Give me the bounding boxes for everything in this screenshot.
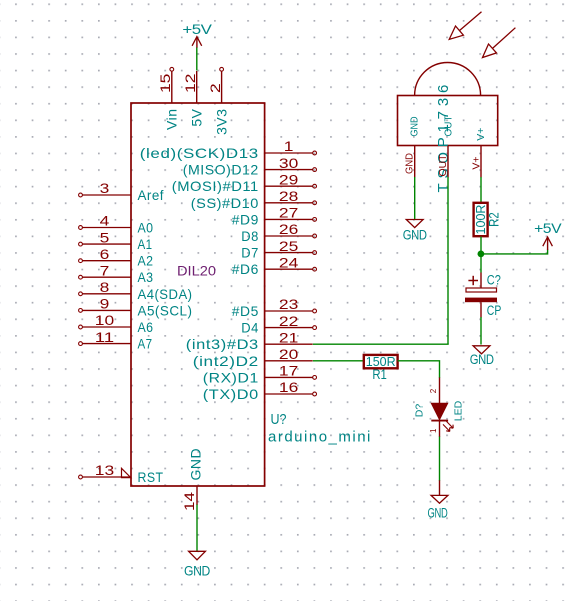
svg-text:A3: A3 — [138, 269, 154, 285]
IC pin 2 (3V3) top — [207, 67, 230, 135]
IC pin 17 ((RX)D1) right — [203, 363, 317, 386]
svg-text:OUT: OUT — [442, 115, 454, 137]
incoming light arrow 1 — [449, 12, 481, 40]
svg-text:11: 11 — [95, 329, 115, 345]
svg-text:A4(SDA): A4(SDA) — [138, 286, 193, 302]
resistor R1 150R — [364, 355, 398, 382]
svg-text:2: 2 — [207, 83, 223, 93]
svg-text:3: 3 — [100, 180, 110, 196]
svg-text:GND: GND — [403, 153, 415, 174]
IR receiver dome — [415, 63, 481, 96]
wire sensor V+ to R2 — [480, 177, 482, 203]
svg-text:LED: LED — [453, 400, 465, 421]
ground symbol under LED — [428, 495, 448, 520]
IR sensor value TSOP1736 (vertical) — [435, 80, 452, 193]
svg-text:(SS)#D10: (SS)#D10 — [191, 195, 259, 211]
IC pin 7 (A3) left — [79, 262, 154, 285]
svg-text:#D6: #D6 — [232, 261, 259, 277]
power symbol +5V (top, to pin 12) — [182, 22, 211, 48]
IC pin 16 ((TX)D0) right — [203, 379, 317, 402]
svg-text:GND: GND — [184, 563, 211, 578]
svg-text:13: 13 — [95, 462, 115, 478]
svg-text:21: 21 — [279, 329, 299, 345]
svg-text:DIL20: DIL20 — [177, 264, 216, 279]
svg-text:15: 15 — [157, 73, 173, 93]
svg-text:U?: U? — [271, 411, 287, 428]
svg-text:20: 20 — [279, 346, 299, 362]
IC pin 9 (A5(SCL)) left — [79, 296, 193, 319]
IC pin 4 (A0) left — [79, 213, 154, 236]
IC pin 24 (#D6) right — [232, 254, 317, 277]
ground pin stub under LED — [439, 480, 441, 495]
ground symbol under capacitor — [470, 346, 495, 367]
svg-text:Vin: Vin — [164, 109, 180, 130]
svg-text:D4: D4 — [241, 320, 259, 336]
incoming light arrow 2 — [483, 28, 516, 58]
IC pin 27 (#D9) right — [232, 205, 317, 228]
svg-text:14: 14 — [181, 492, 197, 511]
IR sensor pin GND — [403, 116, 420, 177]
svg-text:D7: D7 — [241, 245, 259, 261]
ground symbol under sensor — [403, 220, 428, 243]
wire junction to +5V (right) — [483, 250, 548, 254]
svg-text:R1: R1 — [372, 367, 387, 382]
wire node to IC pin 21 — [313, 343, 449, 345]
svg-text:16: 16 — [279, 379, 299, 395]
svg-text:A1: A1 — [138, 236, 153, 252]
IC pin 21 ((int3)#D3) right — [186, 329, 313, 352]
svg-text:6: 6 — [100, 246, 110, 262]
wire sensor GND pin down — [414, 177, 416, 219]
svg-text:CP: CP — [487, 303, 502, 318]
svg-text:2: 2 — [429, 388, 438, 393]
resistor R2 100R — [474, 203, 502, 236]
svg-text:5V: 5V — [189, 108, 205, 126]
svg-text:23: 23 — [279, 296, 299, 312]
IC pin 12 (5V) top — [182, 71, 205, 127]
svg-text:7: 7 — [100, 262, 110, 278]
IC pin 30 ((MISO)D12) right — [183, 155, 317, 178]
IR sensor pin OUT — [437, 115, 454, 177]
svg-text:C?: C? — [487, 273, 501, 288]
svg-text:22: 22 — [279, 313, 299, 329]
IC pin 15 (Vin) top — [157, 67, 180, 130]
IC pin 28 ((SS)#D10) right — [191, 188, 317, 211]
svg-text:V+: V+ — [471, 156, 483, 169]
svg-text:#D9: #D9 — [232, 211, 259, 227]
IC footprint field DIL20 — [177, 264, 216, 279]
IC pin 23 (#D5) right — [232, 296, 317, 319]
svg-text:8: 8 — [100, 279, 110, 295]
IC reference U? — [271, 411, 287, 428]
wire sensor OUT down to node — [447, 177, 449, 344]
svg-text:A2: A2 — [138, 253, 154, 269]
svg-text:GND: GND — [470, 352, 495, 367]
svg-text:24: 24 — [279, 254, 299, 270]
svg-text:17: 17 — [279, 363, 299, 379]
svg-text:1: 1 — [284, 138, 294, 154]
IR sensor pin V+ — [471, 128, 488, 178]
IC pin 13 (RST) left, input-low marker — [79, 462, 164, 485]
svg-text:arduino_mini: arduino_mini — [268, 429, 372, 446]
svg-text:R2: R2 — [487, 212, 502, 227]
svg-text:GND: GND — [403, 228, 428, 243]
capacitor C? (polarized, CP) — [465, 273, 501, 318]
svg-text:D8: D8 — [241, 228, 259, 244]
svg-text:A0: A0 — [138, 220, 154, 236]
IC pin 10 (A6) left — [79, 312, 154, 335]
svg-text:10: 10 — [95, 312, 115, 328]
wire R2 to junction — [480, 237, 482, 273]
IC pin 20 ((int2)D2) right — [193, 346, 313, 369]
svg-text:(RX)D1: (RX)D1 — [203, 369, 259, 385]
svg-text:GND: GND — [428, 506, 448, 521]
wire +5V to pin 12 — [196, 48, 198, 71]
svg-text:A7: A7 — [138, 336, 153, 352]
svg-text:28: 28 — [279, 188, 299, 204]
svg-text:(MISO)D12: (MISO)D12 — [183, 162, 259, 178]
svg-text:OUT: OUT — [437, 154, 449, 177]
svg-text:#D5: #D5 — [232, 303, 259, 319]
IC pin 26 (D8) right — [241, 221, 316, 244]
IC pin 8 (A4(SDA)) left — [79, 279, 193, 302]
svg-text:RST: RST — [138, 469, 164, 485]
svg-text:3V3: 3V3 — [214, 109, 230, 135]
svg-text:(MOSI)#D11: (MOSI)#D11 — [172, 178, 259, 194]
ground symbol under IC pin 14 — [184, 551, 211, 578]
svg-text:(int2)D2: (int2)D2 — [193, 353, 259, 369]
svg-text:A6: A6 — [138, 319, 154, 335]
wire R1 to LED anode — [398, 361, 440, 378]
svg-text:+5V: +5V — [534, 221, 561, 236]
IC pin 11 (A7) left — [79, 329, 153, 352]
IC pin 14 (GND) bottom — [181, 448, 204, 511]
power symbol +5V (right) — [534, 221, 561, 250]
svg-text:(TX)D0: (TX)D0 — [203, 386, 259, 402]
LED D? — [414, 378, 465, 438]
svg-text:V+: V+ — [475, 128, 487, 141]
svg-text:27: 27 — [279, 205, 299, 221]
wire IC pin 14 to ground — [196, 505, 198, 552]
wire IC pin 20 to R1 — [313, 360, 364, 362]
svg-text:A5(SCL): A5(SCL) — [138, 302, 193, 318]
wire cap to ground — [480, 317, 482, 345]
svg-text:GND: GND — [408, 116, 420, 136]
svg-text:5: 5 — [100, 229, 110, 245]
svg-text:D?: D? — [414, 404, 426, 418]
IC pin 1 ((led)(SCK)D13) right — [140, 138, 317, 161]
IR receiver TSOP1736 body — [398, 96, 498, 146]
IC pin 29 ((MOSI)#D11) right — [172, 171, 317, 194]
svg-text:GND: GND — [188, 448, 204, 481]
svg-text:25: 25 — [279, 238, 299, 254]
IC U? arduino_mini body — [131, 103, 265, 486]
svg-text:1: 1 — [429, 428, 438, 433]
svg-text:+5V: +5V — [182, 22, 211, 37]
svg-text:12: 12 — [182, 73, 198, 93]
svg-text:4: 4 — [100, 213, 110, 229]
svg-text:29: 29 — [279, 171, 299, 187]
svg-text:Aref: Aref — [138, 187, 165, 203]
IC pin 22 (D4) right — [241, 313, 316, 336]
wire LED cathode to ground — [439, 437, 441, 481]
svg-text:9: 9 — [100, 296, 110, 312]
IC pin 5 (A1) left — [79, 229, 153, 252]
IC value arduino_mini — [268, 429, 372, 446]
IC pin 6 (A2) left — [79, 246, 154, 269]
svg-text:30: 30 — [279, 155, 299, 171]
junction dot — [478, 251, 485, 258]
IC pin 25 (D7) right — [241, 238, 316, 261]
IC pin 3 (Aref) left — [79, 180, 164, 203]
svg-text:26: 26 — [279, 221, 299, 237]
svg-text:(int3)#D3: (int3)#D3 — [186, 336, 259, 352]
svg-text:(led)(SCK)D13: (led)(SCK)D13 — [140, 145, 259, 161]
